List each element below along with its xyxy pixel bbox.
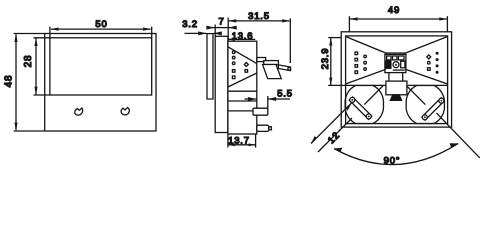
left slot <box>349 97 372 120</box>
display window rect <box>50 38 152 95</box>
movement box <box>386 52 405 54</box>
svg-text:48: 48 <box>3 75 14 88</box>
middle terminal lug <box>253 108 268 115</box>
svg-text:3.2: 3.2 <box>182 19 198 30</box>
pin marks col2 <box>244 63 248 67</box>
body internal lines <box>228 90 257 92</box>
svg-text:13.6: 13.6 <box>232 31 254 42</box>
dim 49 <box>350 18 447 20</box>
svg-text:12: 12 <box>326 130 342 146</box>
svg-text:28: 28 <box>23 55 34 68</box>
taper diagonals <box>347 37 387 54</box>
mounting flange plate <box>215 36 228 132</box>
terminal marks left <box>355 52 358 55</box>
icon left (adjuster) <box>75 108 83 115</box>
right slot <box>422 98 445 121</box>
icon right <box>121 108 129 115</box>
svg-text:49: 49 <box>388 5 400 16</box>
body diagonals <box>228 47 257 64</box>
outer double rect <box>341 32 451 127</box>
dim 28 <box>35 38 37 94</box>
construction diagonal right <box>437 113 480 158</box>
90 degree arc <box>334 143 458 164</box>
left boss <box>345 86 383 124</box>
dim 23.9 <box>330 38 332 85</box>
svg-text:23.9: 23.9 <box>320 48 331 70</box>
case body <box>228 41 257 134</box>
svg-text:7: 7 <box>218 16 224 27</box>
outer bezel rect <box>45 34 156 132</box>
boss pointer diagonals <box>364 86 383 105</box>
top terminal assembly <box>257 58 266 62</box>
terminal marks right <box>436 52 439 55</box>
bezel lip (U profile) <box>207 34 213 99</box>
pin marks col1 <box>232 51 235 54</box>
dim 50 <box>51 28 151 30</box>
right boss <box>406 86 444 124</box>
dim 48 <box>15 34 17 130</box>
bracket center <box>386 81 407 95</box>
dim 12 rails <box>318 118 352 152</box>
dim 31.5 <box>229 20 290 22</box>
lower terminal lug <box>257 125 269 131</box>
divider <box>346 84 386 86</box>
svg-text:50: 50 <box>95 19 107 30</box>
svg-text:90°: 90° <box>384 156 401 167</box>
svg-text:5.5: 5.5 <box>277 89 293 100</box>
svg-text:31.5: 31.5 <box>248 11 270 22</box>
